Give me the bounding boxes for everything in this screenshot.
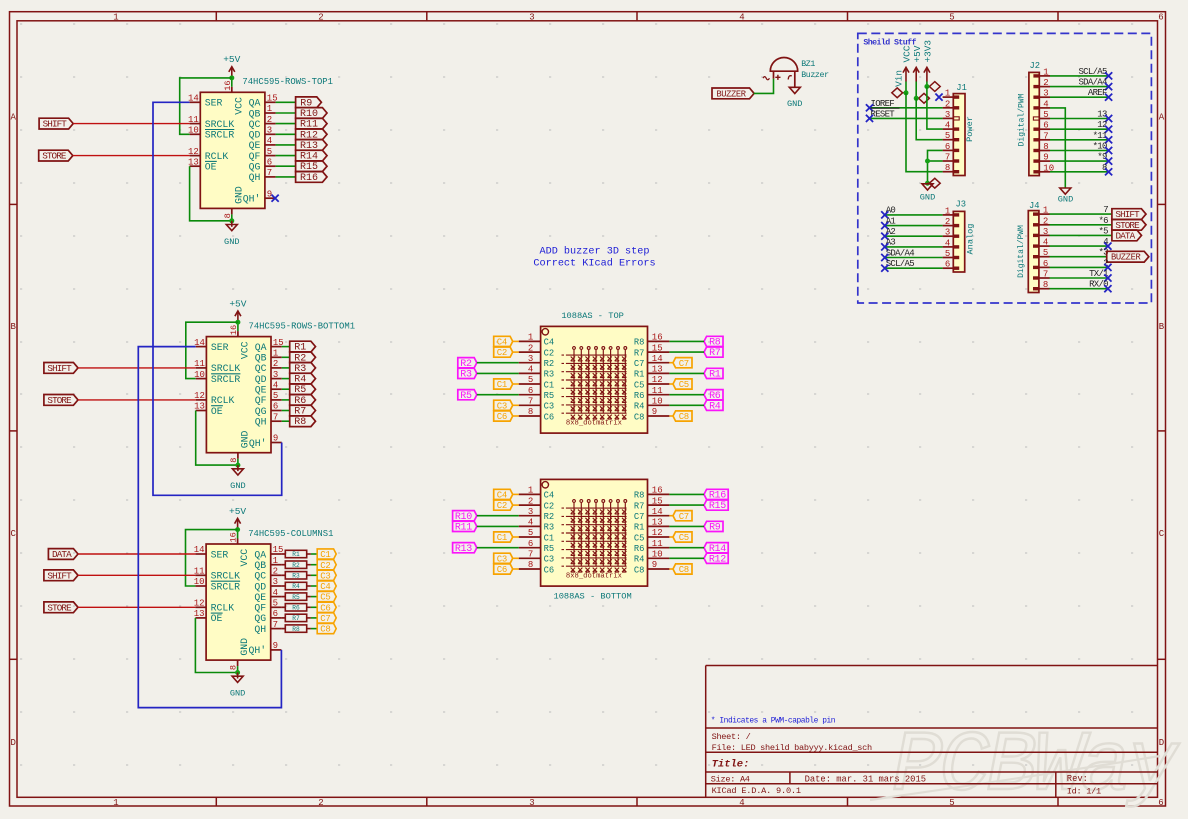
svg-text:Size: A4: Size: A4 bbox=[711, 775, 750, 785]
svg-text:SER: SER bbox=[211, 342, 229, 353]
svg-text:3: 3 bbox=[1043, 89, 1048, 99]
svg-text:9: 9 bbox=[652, 407, 657, 417]
svg-text:16: 16 bbox=[229, 325, 239, 335]
svg-text:3: 3 bbox=[1043, 227, 1048, 237]
1088AS - TOP pin 11 R6 bbox=[648, 394, 670, 396]
svg-text:GND: GND bbox=[224, 237, 239, 247]
svg-text:6: 6 bbox=[945, 142, 950, 152]
junction VCC J1 bbox=[904, 90, 909, 95]
svg-text:PCBWay: PCBWay bbox=[892, 718, 1180, 815]
hier label R9 (1088AS - BOTTOM right) bbox=[704, 521, 723, 531]
svg-text:QG: QG bbox=[254, 613, 266, 624]
svg-text:10: 10 bbox=[652, 397, 663, 407]
svg-text:RCLK: RCLK bbox=[211, 603, 235, 614]
svg-text:3: 3 bbox=[273, 370, 278, 380]
svg-text:14: 14 bbox=[188, 94, 199, 104]
no-connect J3 pin 5 bbox=[881, 254, 888, 261]
svg-text:1: 1 bbox=[273, 349, 278, 359]
wire STORE to U2 RCLK bbox=[78, 399, 196, 401]
svg-text:C7: C7 bbox=[634, 512, 645, 522]
svg-text:BZ1: BZ1 bbox=[801, 60, 815, 69]
dot-matrix 1088AS - BOTTOM body bbox=[541, 479, 648, 586]
74HC595-ROWS-BOTTOM1 pin 1 QB bbox=[271, 356, 282, 358]
connector J4 body bbox=[1028, 211, 1039, 293]
hier label C2 (1088AS - BOTTOM left) bbox=[494, 500, 513, 510]
1088AS - TOP pin 9 C8 bbox=[648, 415, 670, 417]
svg-text:RCLK: RCLK bbox=[205, 151, 229, 162]
net RESET wire to J1 pin 3 bbox=[870, 117, 943, 119]
hier label R8 (1088AS - TOP right) bbox=[704, 336, 723, 346]
hier label C5 (1088AS - BOTTOM right) bbox=[673, 532, 692, 542]
svg-text:R5: R5 bbox=[460, 391, 472, 402]
wire R11 to 1088AS - BOTTOM bbox=[477, 525, 519, 527]
global label R2 bbox=[290, 352, 316, 363]
dot-matrix 1088AS - TOP pin-1 circle bbox=[542, 329, 548, 335]
svg-text:5: 5 bbox=[945, 249, 950, 259]
wire 1088AS - BOTTOM to R15 bbox=[669, 504, 704, 506]
1088AS - BOTTOM pin 1 C4 bbox=[519, 493, 541, 495]
net 7 wire J4 pin 1 to SHIFT bbox=[1050, 213, 1112, 215]
74HC595-COLUMNS1 pin 11 SRCLK bbox=[195, 574, 206, 576]
svg-text:A1: A1 bbox=[886, 216, 896, 226]
svg-text:SHIFT: SHIFT bbox=[47, 570, 72, 581]
svg-text:R3: R3 bbox=[544, 370, 555, 380]
svg-text:SHIFT: SHIFT bbox=[47, 363, 72, 374]
net *3 wire J4 pin 5 to BUZZER bbox=[1050, 256, 1107, 258]
svg-text:1: 1 bbox=[945, 89, 950, 99]
junction GND 74HC595-COLUMNS1 bbox=[235, 670, 240, 675]
74HC595-ROWS-BOTTOM1 pin 12 RCLK bbox=[196, 399, 207, 401]
J4 pin 6 bbox=[1033, 266, 1039, 269]
global label STORE (U3) bbox=[44, 602, 78, 613]
no-connect J3 pin 3 bbox=[881, 233, 888, 240]
svg-text:SRCLK: SRCLK bbox=[211, 571, 241, 582]
hier label C6 (1088AS - TOP left) bbox=[494, 411, 513, 421]
svg-text:QC: QC bbox=[254, 571, 266, 582]
svg-text:1: 1 bbox=[267, 104, 272, 114]
svg-text:Buzzer: Buzzer bbox=[801, 71, 829, 80]
svg-text:C5: C5 bbox=[634, 380, 645, 390]
svg-text:R5: R5 bbox=[544, 544, 555, 554]
1088AS - BOTTOM pin 6 R5 bbox=[519, 547, 541, 549]
no-connect J4 pin 8 bbox=[1104, 285, 1111, 292]
svg-text:2: 2 bbox=[267, 115, 272, 125]
svg-text:R2: R2 bbox=[292, 562, 300, 569]
J1 pin 5 bbox=[954, 138, 960, 141]
svg-text:3: 3 bbox=[273, 577, 278, 587]
power symbol VCC bbox=[905, 67, 907, 81]
svg-text:16: 16 bbox=[652, 333, 663, 343]
J4 pin 4 bbox=[1033, 244, 1039, 247]
svg-text:R7: R7 bbox=[292, 615, 300, 622]
net A0 wire J3 pin 1 bbox=[885, 214, 943, 216]
hier label R11 (1088AS - BOTTOM left) bbox=[453, 521, 477, 531]
svg-text:6: 6 bbox=[1158, 12, 1163, 22]
svg-text:1: 1 bbox=[945, 206, 950, 216]
wire R2 to 1088AS - TOP bbox=[477, 362, 519, 364]
svg-text:R1: R1 bbox=[709, 370, 721, 381]
J1 pin 8 bbox=[954, 170, 960, 173]
connector J2 body bbox=[1029, 72, 1039, 175]
svg-text:1: 1 bbox=[528, 486, 533, 496]
wire R8 to C8 bbox=[311, 628, 317, 630]
hier label R15 (1088AS - BOTTOM right) bbox=[704, 500, 728, 510]
svg-text:C2: C2 bbox=[497, 348, 507, 358]
svg-text:C3: C3 bbox=[497, 554, 507, 564]
no-connect J3 pin 4 bbox=[881, 243, 888, 250]
net *9 wire J2 pin 9 bbox=[1050, 160, 1109, 162]
svg-text:DATA: DATA bbox=[52, 549, 72, 560]
J2 pin 9 bbox=[1033, 159, 1039, 162]
svg-text:C7: C7 bbox=[634, 359, 645, 369]
J2 pin 8 bbox=[1033, 149, 1039, 152]
svg-text:QF: QF bbox=[254, 603, 266, 614]
74HC595-COLUMNS1 pin 4 QE bbox=[271, 596, 282, 598]
svg-text:5: 5 bbox=[949, 12, 954, 22]
svg-text:R13: R13 bbox=[455, 544, 472, 555]
hier label C2 (U3 out) bbox=[317, 560, 336, 570]
svg-text:+5V: +5V bbox=[912, 45, 923, 62]
hier label R12 (1088AS - BOTTOM right) bbox=[704, 553, 728, 563]
global label BUZZER bbox=[712, 88, 754, 99]
no-connect J2 pin 5 bbox=[1105, 115, 1112, 122]
net IOREF wire to J1 pin 2 bbox=[870, 107, 943, 109]
svg-text:8: 8 bbox=[1043, 280, 1048, 290]
wire QE U2 to R5 bbox=[282, 388, 290, 390]
svg-text:7: 7 bbox=[1103, 205, 1108, 215]
J3 pin 5 bbox=[954, 256, 960, 259]
svg-text:QB: QB bbox=[254, 560, 266, 571]
svg-text:QC: QC bbox=[249, 119, 261, 130]
svg-text:C2: C2 bbox=[497, 501, 507, 511]
wire R3 to C3 bbox=[311, 574, 317, 576]
wire STORE to U3 RCLK bbox=[78, 606, 195, 608]
junction J1 pin7 GND bbox=[925, 159, 930, 164]
svg-text:8: 8 bbox=[528, 407, 533, 417]
svg-text:4: 4 bbox=[1043, 99, 1048, 109]
hier label R16 (1088AS - BOTTOM right) bbox=[704, 489, 728, 499]
svg-text:QD: QD bbox=[254, 581, 266, 592]
svg-text:2: 2 bbox=[1043, 216, 1048, 226]
svg-text:GND: GND bbox=[1058, 195, 1073, 205]
wire DATA to U3 SER bbox=[78, 553, 195, 555]
connector J3 body bbox=[953, 211, 964, 272]
74HC595-ROWS-TOP1 pin 7 QH bbox=[265, 176, 276, 178]
svg-text:GND: GND bbox=[230, 481, 245, 491]
resistor R6 bbox=[281, 606, 285, 608]
net *5 wire J4 pin 3 to DATA bbox=[1050, 234, 1112, 236]
svg-text:GND: GND bbox=[239, 638, 250, 656]
svg-text:6: 6 bbox=[528, 386, 533, 396]
svg-text:9: 9 bbox=[273, 434, 278, 444]
svg-text:6: 6 bbox=[273, 402, 278, 412]
svg-text:R4: R4 bbox=[634, 555, 645, 565]
svg-text:14: 14 bbox=[652, 354, 663, 364]
svg-text:QF: QF bbox=[249, 151, 261, 162]
power +5V above 74HC595-ROWS-BOTTOM1 bbox=[237, 311, 239, 322]
resistor R1 bbox=[281, 553, 285, 555]
no-connect U1 QH' bbox=[272, 195, 279, 202]
1088AS - BOTTOM pin 3 R2 bbox=[519, 515, 541, 517]
svg-text:J1: J1 bbox=[956, 83, 967, 93]
svg-text:VCC: VCC bbox=[239, 341, 250, 359]
no-connect J4 pin 7 bbox=[1104, 274, 1111, 281]
svg-text:TX/1: TX/1 bbox=[1089, 269, 1108, 279]
wire R2 to C2 bbox=[311, 564, 317, 566]
74HC595-COLUMNS1 pin 13 OE bbox=[195, 617, 206, 619]
no-connect J3 pin 2 bbox=[881, 222, 888, 229]
svg-text:R2: R2 bbox=[544, 359, 555, 369]
net 2 wire J4 pin 6 bbox=[1050, 266, 1108, 268]
svg-text:R8: R8 bbox=[634, 338, 645, 348]
wire SHIFT to U2 SRCLK bbox=[78, 367, 196, 369]
svg-text:2: 2 bbox=[318, 12, 323, 22]
svg-text:5: 5 bbox=[528, 528, 533, 538]
svg-text:R8: R8 bbox=[294, 417, 306, 428]
1088AS - TOP pin 7 C3 bbox=[519, 404, 541, 406]
svg-text:12: 12 bbox=[652, 375, 663, 385]
J3 pin 6 bbox=[954, 267, 960, 270]
global label BUZZER (J4) bbox=[1107, 251, 1149, 262]
J2 pin 6 bbox=[1033, 128, 1039, 131]
1088AS - BOTTOM pin 9 C8 bbox=[648, 568, 670, 570]
74HC595-ROWS-BOTTOM1 pin 4 QE bbox=[271, 388, 282, 390]
svg-text:9: 9 bbox=[273, 641, 278, 651]
global label R12 bbox=[296, 129, 327, 140]
74HC595-ROWS-TOP1 pin 14 SER bbox=[190, 101, 201, 103]
svg-text:10: 10 bbox=[194, 370, 205, 380]
svg-text:C7: C7 bbox=[320, 614, 330, 624]
svg-text:QH': QH' bbox=[249, 438, 267, 449]
74HC595-ROWS-TOP1 pin 10 SRCLR bbox=[190, 133, 201, 135]
svg-text:R8: R8 bbox=[292, 626, 300, 633]
svg-text:13: 13 bbox=[652, 365, 663, 375]
74HC595-ROWS-BOTTOM1 pin 3 QD bbox=[271, 378, 282, 380]
net *6 wire J4 pin 2 to STORE bbox=[1050, 224, 1112, 226]
hier label R13 (1088AS - BOTTOM left) bbox=[453, 543, 477, 553]
svg-text:11: 11 bbox=[652, 386, 663, 396]
hier label C8 (1088AS - TOP right) bbox=[673, 411, 692, 421]
svg-text:+5V: +5V bbox=[223, 54, 240, 65]
svg-text:C3: C3 bbox=[320, 571, 330, 581]
wire QD U2 to R4 bbox=[282, 378, 290, 380]
global label SHIFT (U3) bbox=[44, 570, 78, 581]
svg-text:STORE: STORE bbox=[42, 151, 67, 162]
svg-text:SRCLK: SRCLK bbox=[205, 119, 235, 130]
no-connect J2 pin 8 bbox=[1105, 147, 1112, 154]
svg-text:Vin: Vin bbox=[893, 70, 904, 87]
wire +5V to J1 pin 5 bbox=[916, 98, 942, 139]
svg-text:2: 2 bbox=[528, 343, 533, 353]
ground below 74HC595-ROWS-BOTTOM1 bbox=[232, 469, 243, 475]
svg-text:R3: R3 bbox=[292, 573, 300, 580]
no-connect J2 pin 3 bbox=[1105, 94, 1112, 101]
global label R10 bbox=[296, 108, 327, 119]
svg-text:C3: C3 bbox=[497, 401, 507, 411]
svg-text:12: 12 bbox=[188, 147, 199, 157]
wire 1088AS - TOP to R1 bbox=[669, 372, 704, 374]
wire +3V3 to J1 pin 4 bbox=[927, 87, 943, 130]
svg-text:4: 4 bbox=[528, 518, 533, 528]
svg-text:A: A bbox=[10, 113, 16, 123]
svg-text:+3V3: +3V3 bbox=[923, 40, 934, 63]
svg-text:* Indicates a PWM-capable pin: * Indicates a PWM-capable pin bbox=[711, 717, 836, 726]
svg-text:R7: R7 bbox=[634, 501, 645, 511]
power symbol +3V3 bbox=[926, 67, 928, 81]
svg-text:8: 8 bbox=[528, 560, 533, 570]
74HC595-ROWS-TOP1 pin 5 QF bbox=[265, 155, 276, 157]
no-connect J2 pin 6 bbox=[1105, 126, 1112, 133]
J1 pin 6 bbox=[954, 149, 960, 152]
74HC595-ROWS-BOTTOM1 pin 5 QF bbox=[271, 399, 282, 401]
J2 pin 7 bbox=[1033, 138, 1039, 141]
net A1 wire J3 pin 2 bbox=[885, 225, 943, 227]
svg-text:14: 14 bbox=[194, 338, 205, 348]
wire QF U1 to R14 bbox=[276, 155, 296, 157]
power symbol +5V bbox=[915, 67, 917, 81]
net TX/1 wire J4 pin 7 bbox=[1050, 277, 1108, 279]
sheet box Sheild Stuff bbox=[858, 33, 1152, 303]
wire STORE to U1 RCLK bbox=[73, 155, 190, 157]
svg-text:6: 6 bbox=[1043, 259, 1048, 269]
1088AS - TOP pin 6 R5 bbox=[519, 394, 541, 396]
svg-text:SDA/A4: SDA/A4 bbox=[886, 248, 915, 258]
power flag GND J1 bbox=[929, 178, 940, 188]
svg-text:Sheet: /: Sheet: / bbox=[712, 732, 751, 742]
svg-text:5: 5 bbox=[273, 599, 278, 609]
svg-text:C6: C6 bbox=[544, 412, 555, 422]
svg-text:2: 2 bbox=[1043, 78, 1048, 88]
74HC595-ROWS-BOTTOM1 pin 9 QH' bbox=[271, 442, 282, 444]
svg-text:R1: R1 bbox=[634, 523, 645, 533]
svg-text:2: 2 bbox=[528, 496, 533, 506]
global label R8 bbox=[290, 416, 316, 427]
svg-text:VCC: VCC bbox=[239, 549, 250, 567]
global label SHIFT (U2) bbox=[44, 363, 78, 374]
svg-text:B: B bbox=[1159, 322, 1165, 332]
svg-text:8: 8 bbox=[945, 163, 950, 173]
74HC595-COLUMNS1 pin 7 QH bbox=[271, 628, 282, 630]
svg-text:3: 3 bbox=[528, 354, 533, 364]
hier label C6 (1088AS - BOTTOM left) bbox=[494, 564, 513, 574]
svg-text:12: 12 bbox=[194, 391, 205, 401]
svg-text:QG: QG bbox=[255, 406, 267, 417]
power flag +3V3 bbox=[929, 82, 940, 92]
svg-text:A3: A3 bbox=[886, 238, 896, 248]
svg-text:R11: R11 bbox=[455, 523, 472, 534]
svg-text:R3: R3 bbox=[544, 523, 555, 533]
hier label R6 (1088AS - TOP right) bbox=[704, 390, 723, 400]
svg-text:1088AS - BOTTOM: 1088AS - BOTTOM bbox=[553, 592, 631, 602]
wire QC U2 to R3 bbox=[282, 367, 290, 369]
power +5V above 74HC595-ROWS-TOP1 bbox=[231, 67, 233, 78]
1088AS - BOTTOM pin 13 R1 bbox=[648, 525, 670, 527]
J3 pin 1 bbox=[954, 213, 960, 216]
svg-text:11: 11 bbox=[652, 539, 663, 549]
74HC595-ROWS-TOP1 pin 8 GND bbox=[231, 208, 233, 214]
svg-text:1: 1 bbox=[273, 556, 278, 566]
global label R5 bbox=[290, 384, 316, 395]
svg-text:3: 3 bbox=[529, 798, 534, 808]
ground J2 bbox=[1060, 188, 1071, 194]
74HC595-COLUMNS1 pin 9 QH' bbox=[271, 649, 282, 651]
svg-text:2: 2 bbox=[945, 217, 950, 227]
hier label C4 (1088AS - TOP left) bbox=[494, 336, 513, 346]
hier label C8 (1088AS - BOTTOM right) bbox=[673, 564, 692, 574]
1088AS - BOTTOM pin 2 C2 bbox=[519, 504, 541, 506]
IC 74HC595-ROWS-BOTTOM1 body bbox=[206, 337, 271, 453]
svg-text:Analog: Analog bbox=[966, 224, 976, 255]
wire R5 to 1088AS - TOP bbox=[477, 394, 519, 396]
wire QG U1 to R15 bbox=[276, 165, 296, 167]
74HC595-COLUMNS1 pin 10 SRCLR bbox=[195, 585, 206, 587]
svg-text:A2: A2 bbox=[886, 227, 896, 237]
74HC595-ROWS-TOP1 pin 15 QA bbox=[265, 101, 276, 103]
wire 1088AS - BOTTOM to R12 bbox=[669, 557, 704, 559]
J4 pin 7 bbox=[1033, 276, 1039, 279]
svg-text:SHIFT: SHIFT bbox=[1115, 209, 1140, 220]
74HC595-ROWS-BOTTOM1 pin 2 QC bbox=[271, 367, 282, 369]
no-connect J3 pin 1 bbox=[881, 211, 888, 218]
1088AS - TOP pin 14 C7 bbox=[648, 362, 670, 364]
svg-text:SRCLR: SRCLR bbox=[211, 374, 241, 385]
svg-text:+5V: +5V bbox=[229, 506, 246, 517]
74HC595-ROWS-BOTTOM1 pin 13 OE bbox=[196, 410, 207, 412]
svg-text:5: 5 bbox=[1043, 110, 1048, 120]
svg-text:D: D bbox=[10, 738, 15, 748]
svg-text:File: LED sheild babyyy.kicad_: File: LED sheild babyyy.kicad_sch bbox=[712, 743, 872, 753]
svg-text:1088AS - TOP: 1088AS - TOP bbox=[561, 311, 624, 321]
1088AS - BOTTOM pin 4 R3 bbox=[519, 525, 541, 527]
svg-text:3: 3 bbox=[267, 126, 272, 136]
74HC595-ROWS-BOTTOM1 pin 6 QG bbox=[271, 410, 282, 412]
svg-text:C1: C1 bbox=[320, 550, 330, 560]
svg-text:R1: R1 bbox=[634, 370, 645, 380]
J2 pin 5 bbox=[1033, 117, 1039, 120]
svg-text:5: 5 bbox=[1043, 248, 1048, 258]
J1 pin 1 bbox=[954, 95, 960, 98]
svg-text:6: 6 bbox=[945, 260, 950, 270]
net 8 wire J2 pin 10 bbox=[1050, 171, 1109, 173]
resistor R4 bbox=[281, 585, 285, 587]
wire R10 to 1088AS - BOTTOM bbox=[477, 515, 519, 517]
J1 pin 4 bbox=[954, 127, 960, 130]
svg-text:J2: J2 bbox=[1030, 61, 1041, 71]
svg-text:C2: C2 bbox=[320, 561, 330, 571]
svg-text:5: 5 bbox=[528, 375, 533, 385]
svg-text:QB: QB bbox=[249, 108, 261, 119]
svg-text:2: 2 bbox=[273, 567, 278, 577]
hier label C1 (1088AS - BOTTOM left) bbox=[494, 532, 513, 542]
svg-text:R15: R15 bbox=[709, 501, 726, 512]
svg-text:GND: GND bbox=[230, 689, 245, 699]
svg-text:SDA/A4: SDA/A4 bbox=[1078, 78, 1107, 88]
svg-text:R16: R16 bbox=[300, 173, 318, 184]
global label R16 bbox=[296, 172, 327, 183]
svg-text:OE: OE bbox=[211, 406, 223, 417]
74HC595-ROWS-BOTTOM1 pin 10 SRCLR bbox=[196, 378, 207, 380]
junction GND 74HC595-ROWS-BOTTOM1 bbox=[235, 463, 240, 468]
wire 1088AS - TOP to R6 bbox=[669, 394, 704, 396]
svg-text:1: 1 bbox=[113, 12, 118, 22]
74HC595-COLUMNS1 pin 14 SER bbox=[195, 553, 206, 555]
svg-text:11: 11 bbox=[194, 567, 205, 577]
svg-text:6: 6 bbox=[267, 157, 272, 167]
svg-text:SHIFT: SHIFT bbox=[43, 119, 68, 130]
BZ1 pin + (left) bbox=[773, 71, 775, 79]
1088AS - TOP pin 8 C6 bbox=[519, 415, 541, 417]
global label R1 bbox=[290, 341, 316, 352]
